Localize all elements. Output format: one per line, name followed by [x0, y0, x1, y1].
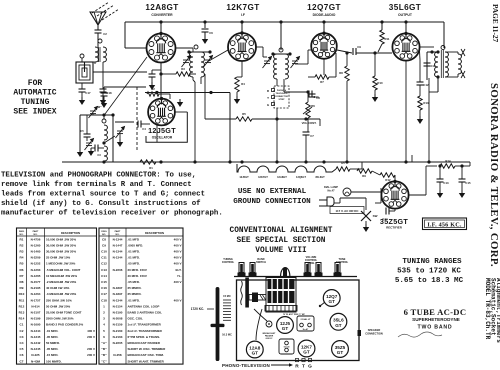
- wire: [103, 115, 105, 119]
- wire: [97, 24, 99, 26]
- svg-text:GT: GT: [337, 350, 344, 355]
- junction: [436, 50, 439, 53]
- svg-text:C7: C7: [20, 359, 24, 363]
- svg-text:I.F: I.F: [241, 13, 245, 17]
- switch SW: [361, 211, 371, 221]
- svg-text:shield (if any) to G. Consult: shield (if any) to G. Consult instructio…: [1, 200, 201, 208]
- wire: [374, 90, 376, 94]
- svg-text:C7: C7: [310, 134, 314, 138]
- connector terminal: [272, 103, 275, 106]
- ground: [117, 139, 123, 147]
- wire: [103, 87, 105, 93]
- wire: [192, 77, 194, 80]
- svg-text:40 OHM 1W 10%: 40 OHM 1W 10%: [46, 286, 70, 290]
- socket V4: [330, 313, 347, 330]
- svg-text:5: 5: [103, 329, 105, 333]
- wire: [200, 77, 202, 84]
- svg-text:SHORT W.ANT. TRIMMER: SHORT W.ANT. TRIMMER: [128, 359, 165, 363]
- svg-text:VOL CONT.: VOL CONT.: [302, 121, 317, 125]
- svg-text:12J5: 12J5: [280, 321, 291, 326]
- wire: [437, 77, 439, 92]
- voice coil: [458, 54, 461, 74]
- ground: [79, 97, 85, 105]
- wire IF1 top: [188, 51, 210, 53]
- wire: [339, 198, 341, 203]
- svg-text:C1: C1: [20, 323, 24, 327]
- wire plate to output transformer: [419, 46, 434, 48]
- svg-text:25 OHM .5W 10%: 25 OHM .5W 10%: [46, 256, 71, 260]
- svg-text:40 MFD. 150V: 40 MFD. 150V: [128, 274, 147, 278]
- junction: [102, 160, 105, 163]
- capacitor C10b: [424, 63, 431, 66]
- svg-text:No.47: No.47: [327, 189, 335, 193]
- svg-text:C11: C11: [101, 256, 107, 260]
- junction: [404, 160, 407, 163]
- wire: [426, 52, 428, 80]
- svg-text:2: 2: [103, 311, 105, 315]
- svg-text:"B": "B": [101, 353, 107, 357]
- svg-text:20 MFD. 150V: 20 MFD. 150V: [128, 268, 147, 272]
- svg-text:SEE SPECIAL SECTION: SEE SPECIAL SECTION: [237, 237, 326, 245]
- wire: [94, 62, 96, 64]
- svg-text:3: 3: [103, 317, 105, 321]
- svg-text:R5: R5: [341, 161, 345, 165]
- wire: [204, 100, 206, 119]
- oscillator shield box: [146, 112, 187, 142]
- wire: [439, 182, 441, 190]
- capacitor C3: [95, 145, 98, 152]
- svg-text:GT: GT: [252, 351, 259, 356]
- svg-text:R9: R9: [20, 286, 24, 290]
- wire: [175, 111, 187, 113]
- junction: [159, 20, 162, 23]
- antenna coil secondary: [103, 47, 106, 62]
- svg-text:250 OHM .5W 10%: 250 OHM .5W 10%: [46, 298, 72, 302]
- svg-text:BAND 2 PAD CONDSR.5%: BAND 2 PAD CONDSR.5%: [46, 323, 83, 327]
- svg-text:N-2190: N-2190: [113, 311, 123, 315]
- svg-text:R10: R10: [377, 81, 383, 85]
- svg-text:12A8: 12A8: [249, 345, 260, 350]
- wire: [308, 49, 311, 51]
- wire: [102, 92, 104, 97]
- wire dashed: [136, 87, 138, 152]
- svg-text:6 TUBE AC-DC: 6 TUBE AC-DC: [404, 307, 467, 317]
- junction: [155, 91, 158, 94]
- chassis outline: [237, 280, 360, 361]
- capacitor: [101, 93, 108, 96]
- junction: [102, 113, 105, 116]
- svg-text:N-1897: N-1897: [113, 286, 123, 290]
- svg-text:N-2206: N-2206: [113, 268, 123, 272]
- tube V6 35Z5GT: [381, 180, 408, 209]
- wire: [103, 96, 105, 100]
- capacitor C4: [138, 121, 141, 128]
- resistor: [336, 167, 350, 171]
- svg-text:.3 MEGOHM .5W 20%: .3 MEGOHM .5W 20%: [46, 292, 77, 296]
- wire: [350, 168, 362, 170]
- junction: [228, 160, 231, 163]
- svg-text:R14: R14: [445, 159, 451, 163]
- svg-text:200 V: 200 V: [87, 335, 95, 339]
- svg-text:TUNING: TUNING: [21, 98, 50, 107]
- svg-text:C6: C6: [209, 31, 213, 35]
- wire: [161, 73, 176, 75]
- trimmer osc: [116, 127, 125, 139]
- junction: [288, 52, 291, 55]
- dial lamp block: [297, 316, 314, 331]
- svg-text:.05 MFD.: .05 MFD.: [46, 347, 59, 351]
- svg-text:R9: R9: [362, 174, 366, 178]
- svg-text:C15: C15: [101, 280, 107, 284]
- pointer curve: [254, 309, 267, 321]
- terminal loop: [80, 54, 84, 58]
- padder: [266, 321, 272, 327]
- svg-text:400 V: 400 V: [174, 280, 182, 284]
- svg-text:12A8GT: 12A8GT: [277, 175, 287, 179]
- svg-text:R7: R7: [320, 80, 324, 84]
- text 117V: [330, 207, 364, 214]
- svg-text:N-2199: N-2199: [31, 317, 41, 321]
- ground: [101, 100, 107, 108]
- wire: [340, 197, 366, 199]
- wire IF2 feed: [280, 22, 282, 50]
- svg-text:C6: C6: [20, 353, 24, 357]
- wire: [115, 121, 134, 123]
- chassis front rail: [234, 276, 357, 278]
- wire: [427, 51, 438, 53]
- svg-text:N-2160: N-2160: [113, 329, 123, 333]
- svg-text:N-2159: N-2159: [113, 323, 123, 327]
- wire: [346, 53, 348, 66]
- tube V4 35L6GT: [392, 32, 419, 61]
- junction: [373, 51, 376, 54]
- wire: [346, 81, 348, 162]
- svg-text:50 OHM .5W 20%: 50 OHM .5W 20%: [46, 304, 71, 308]
- ground: [202, 36, 208, 44]
- wire: [457, 74, 459, 77]
- svg-text:Alignment,Trimmers: Alignment,Trimmers: [495, 278, 500, 343]
- resistor: [380, 173, 395, 177]
- svg-text:"W": "W": [97, 105, 103, 109]
- svg-text:SWITCH: SWITCH: [256, 261, 266, 264]
- svg-text:PART: PART: [115, 230, 121, 233]
- svg-text:SHORT W. OSC. TRIMMER: SHORT W. OSC. TRIMMER: [128, 347, 167, 351]
- svg-text:16.3 MC: 16.3 MC: [222, 333, 232, 337]
- wire: [419, 85, 421, 96]
- svg-text:1720 KC.: 1720 KC.: [191, 307, 205, 311]
- wire: [394, 208, 396, 211]
- ground: [417, 116, 423, 124]
- connector terminal: [272, 96, 275, 99]
- svg-text:N-1460: N-1460: [31, 250, 41, 254]
- wire: [97, 33, 99, 47]
- terminal IF2: [279, 48, 283, 52]
- svg-text:35L6GT: 35L6GT: [389, 3, 421, 12]
- svg-text:"C": "C": [101, 359, 107, 363]
- wire: [374, 53, 376, 76]
- svg-text:DESCRIPTION: DESCRIPTION: [61, 231, 80, 235]
- junction: [304, 117, 307, 120]
- svg-text:1st I.F. TRANSFORMER: 1st I.F. TRANSFORMER: [128, 323, 162, 327]
- wire: [457, 52, 459, 54]
- svg-text:C18: C18: [101, 298, 107, 302]
- svg-text:CONNECTION: CONNECTION: [365, 332, 383, 336]
- svg-text:OSC. COIL: OSC. COIL: [128, 317, 144, 321]
- capacitor C10: [309, 91, 312, 98]
- wire: [236, 92, 238, 96]
- trimmer IF2a: [263, 57, 272, 69]
- speaker cone marks: [461, 49, 465, 78]
- wire cathode: [156, 125, 158, 143]
- svg-text:PHONO-TELEVISION: PHONO-TELEVISION: [222, 363, 270, 368]
- knob volume: [305, 263, 310, 273]
- svg-text:R5: R5: [242, 112, 246, 116]
- junction: [193, 160, 196, 163]
- svg-text:N-225: N-225: [31, 353, 40, 357]
- svg-text:R11: R11: [19, 298, 25, 302]
- center dome: [281, 268, 290, 277]
- wire: [409, 194, 426, 196]
- trimmer IF1b: [204, 56, 213, 68]
- svg-text:C8: C8: [102, 237, 106, 241]
- wire: [356, 52, 392, 54]
- wire plate to IF1: [175, 47, 193, 49]
- svg-text:12K7GT: 12K7GT: [226, 3, 259, 12]
- svg-text:N-1344: N-1344: [113, 256, 123, 260]
- capacitor C5b: [149, 74, 156, 77]
- svg-text:TWO BAND: TWO BAND: [418, 325, 453, 331]
- svg-text:SW: SW: [373, 214, 378, 218]
- svg-text:C3: C3: [97, 153, 101, 157]
- svg-text:N-1342: N-1342: [31, 341, 41, 345]
- svg-text:15 MC: 15 MC: [223, 294, 231, 298]
- junction: [209, 91, 212, 94]
- ground: [234, 96, 240, 104]
- junction: [404, 20, 407, 23]
- svg-text:DWG: DWG: [101, 231, 107, 233]
- svg-text:600 KC: 600 KC: [266, 338, 273, 340]
- svg-text:STRIP: STRIP: [279, 99, 286, 101]
- connector terminal: [272, 89, 275, 92]
- svg-text:25,000 OHM TONE CONT: 25,000 OHM TONE CONT: [46, 311, 82, 315]
- wire: [351, 191, 381, 193]
- svg-text:200 V: 200 V: [87, 353, 95, 357]
- svg-text:2 DIAL LT: 2 DIAL LT: [300, 318, 311, 321]
- junction: [240, 20, 243, 23]
- svg-text:NO.: NO.: [20, 234, 24, 236]
- svg-text:25 MMFD.: 25 MMFD.: [128, 286, 142, 290]
- svg-text:G: G: [308, 364, 312, 370]
- wire: [361, 162, 363, 169]
- parts table frame: [17, 228, 97, 364]
- wire: [141, 123, 150, 125]
- wire: [276, 119, 278, 162]
- svg-text:400 V: 400 V: [174, 256, 182, 260]
- wire: [204, 32, 206, 36]
- svg-text:DESCRIPTION: DESCRIPTION: [145, 231, 164, 235]
- wire: [190, 73, 196, 75]
- svg-text:.01 MFD.: .01 MFD.: [46, 329, 59, 333]
- wire: [98, 147, 104, 149]
- svg-text:N-1757: N-1757: [31, 298, 41, 302]
- socket V6: [332, 341, 349, 358]
- svg-text:R4: R4: [20, 256, 24, 260]
- phono/television connector strip: [274, 86, 289, 108]
- wire transformer feed: [443, 22, 445, 48]
- svg-text:R3: R3: [20, 250, 24, 254]
- terminal T4: [441, 46, 445, 50]
- wire: [256, 46, 263, 48]
- wire: [86, 115, 88, 134]
- resistor: [176, 72, 190, 76]
- wire: [307, 92, 309, 102]
- resistor: [315, 75, 329, 79]
- svg-text:RECTIFIER: RECTIFIER: [386, 226, 403, 230]
- svg-text:C10: C10: [431, 64, 436, 68]
- svg-text:BROADCAST: BROADCAST: [263, 332, 277, 335]
- wire: [276, 79, 278, 86]
- svg-text:R10: R10: [19, 292, 25, 296]
- svg-text:SEE INDEX: SEE INDEX: [13, 108, 56, 117]
- wire: [91, 147, 95, 149]
- resistor: [306, 102, 310, 118]
- resistor: [357, 169, 372, 173]
- svg-text:C9: C9: [357, 45, 361, 49]
- svg-text:400 V: 400 V: [174, 237, 182, 241]
- svg-text:R8: R8: [20, 280, 24, 284]
- svg-text:10 MEGOHM .5W 20%: 10 MEGOHM .5W 20%: [46, 274, 77, 278]
- wire: [283, 86, 285, 92]
- svg-text:N-1263: N-1263: [31, 268, 41, 272]
- svg-text:N-2154: N-2154: [113, 304, 123, 308]
- svg-text:12J5GT: 12J5GT: [148, 126, 176, 135]
- svg-text:5.65 to 18.3 MC: 5.65 to 18.3 MC: [395, 277, 464, 285]
- junction: [159, 72, 162, 75]
- antenna: [90, 2, 119, 25]
- svg-text:N-1897: N-1897: [113, 292, 123, 296]
- wire: [426, 165, 437, 167]
- svg-text:535 to 1720 KC: 535 to 1720 KC: [397, 268, 461, 276]
- wire: [461, 166, 463, 179]
- dial pointer crossbar: [211, 324, 225, 327]
- svg-text:N-1344: N-1344: [113, 298, 123, 302]
- dial scale ticks: [223, 299, 231, 301]
- junction: [322, 160, 325, 163]
- svg-text:12Q7GT: 12Q7GT: [307, 3, 341, 12]
- svg-text:N-1690: N-1690: [31, 323, 41, 327]
- wire: [81, 83, 83, 89]
- wire: [276, 108, 278, 120]
- svg-text:BROADCAST OSC. TRIM.: BROADCAST OSC. TRIM.: [128, 353, 164, 357]
- wire: [419, 51, 422, 60]
- capacitor C6: [202, 29, 209, 32]
- svg-text:.0005 MFD.: .0005 MFD.: [128, 243, 144, 247]
- svg-text:200 V: 200 V: [87, 347, 95, 351]
- svg-text:GT: GT: [303, 350, 310, 355]
- capacitor C17: [79, 89, 86, 92]
- junction: [345, 160, 348, 163]
- svg-text:4: 4: [103, 323, 105, 327]
- tube V1 12A8GT: [147, 32, 176, 63]
- svg-text:C2: C2: [20, 329, 24, 333]
- wire: [237, 76, 242, 78]
- wire V4 cathode down: [405, 61, 407, 162]
- wire: [329, 76, 336, 78]
- svg-text:TELEVISION: TELEVISION: [276, 93, 288, 95]
- wire: [263, 56, 267, 58]
- capacitor C8: [309, 94, 316, 97]
- junction: [275, 117, 278, 120]
- svg-text:R5: R5: [20, 262, 24, 266]
- svg-text:R1: R1: [149, 166, 153, 170]
- svg-text:N-2107: N-2107: [31, 311, 41, 315]
- resistor: [345, 66, 349, 81]
- svg-text:CONVENTIONAL ALIGNMENT: CONVENTIONAL ALIGNMENT: [230, 227, 333, 235]
- svg-text:USE NO EXTERNAL: USE NO EXTERNAL: [238, 188, 307, 196]
- svg-text:NO.: NO.: [116, 234, 120, 236]
- wire B- bus: [62, 161, 470, 163]
- svg-text:N-1447: N-1447: [113, 243, 123, 247]
- svg-text:ANTENNA COIL LOOP: ANTENNA COIL LOOP: [128, 304, 160, 308]
- wire band bus: [80, 114, 114, 116]
- tube V5 12J5GT: [148, 97, 175, 125]
- pot arrow: [303, 107, 312, 114]
- svg-text:CONNECTOR: CONNECTOR: [275, 96, 288, 98]
- wire: [461, 182, 463, 190]
- svg-text:C4: C4: [20, 341, 24, 345]
- svg-text:R13: R13: [423, 101, 429, 105]
- svg-text:ELT.: ELT.: [176, 268, 182, 272]
- tube V2 12K7GT: [228, 31, 256, 61]
- junction: [304, 160, 307, 163]
- svg-text:C10: C10: [101, 250, 107, 254]
- IF frequency box: [423, 218, 467, 230]
- svg-text:FOR: FOR: [28, 79, 43, 88]
- svg-text:C14: C14: [101, 274, 107, 278]
- ground: [363, 224, 369, 232]
- svg-text:.01 MFD: .01 MFD: [128, 237, 140, 241]
- wire: [419, 110, 421, 116]
- junction: [275, 160, 278, 163]
- svg-text:R8: R8: [339, 71, 343, 75]
- wire loop to grid: [93, 71, 147, 73]
- wire AVC line: [252, 118, 320, 120]
- junction: [322, 20, 325, 23]
- wire: [378, 44, 382, 52]
- switch arm S2: [104, 136, 115, 143]
- svg-text:DIODE-AUDIO: DIODE-AUDIO: [313, 13, 336, 17]
- svg-text:12Q6GT: 12Q6GT: [296, 175, 306, 179]
- svg-text:R14: R14: [19, 317, 25, 321]
- wire diagonal grid lead: [105, 57, 147, 114]
- svg-text:R1: R1: [20, 237, 24, 241]
- wire: [119, 134, 121, 139]
- svg-text:12K7GT: 12K7GT: [258, 175, 268, 179]
- junction: [430, 50, 433, 53]
- svg-text:C3: C3: [20, 335, 24, 339]
- wire: [334, 202, 340, 204]
- wire: [103, 161, 105, 162]
- trimmer IF2b: [291, 57, 300, 69]
- wire: [335, 53, 337, 77]
- IF1 secondary: [201, 52, 204, 77]
- svg-text:GT: GT: [335, 323, 342, 328]
- svg-text:DIAL LAMP: DIAL LAMP: [324, 185, 338, 189]
- svg-text:PART: PART: [33, 230, 39, 233]
- wire: [193, 80, 195, 82]
- wire antenna lead: [97, 25, 99, 30]
- svg-text:N-43M: N-43M: [31, 359, 41, 363]
